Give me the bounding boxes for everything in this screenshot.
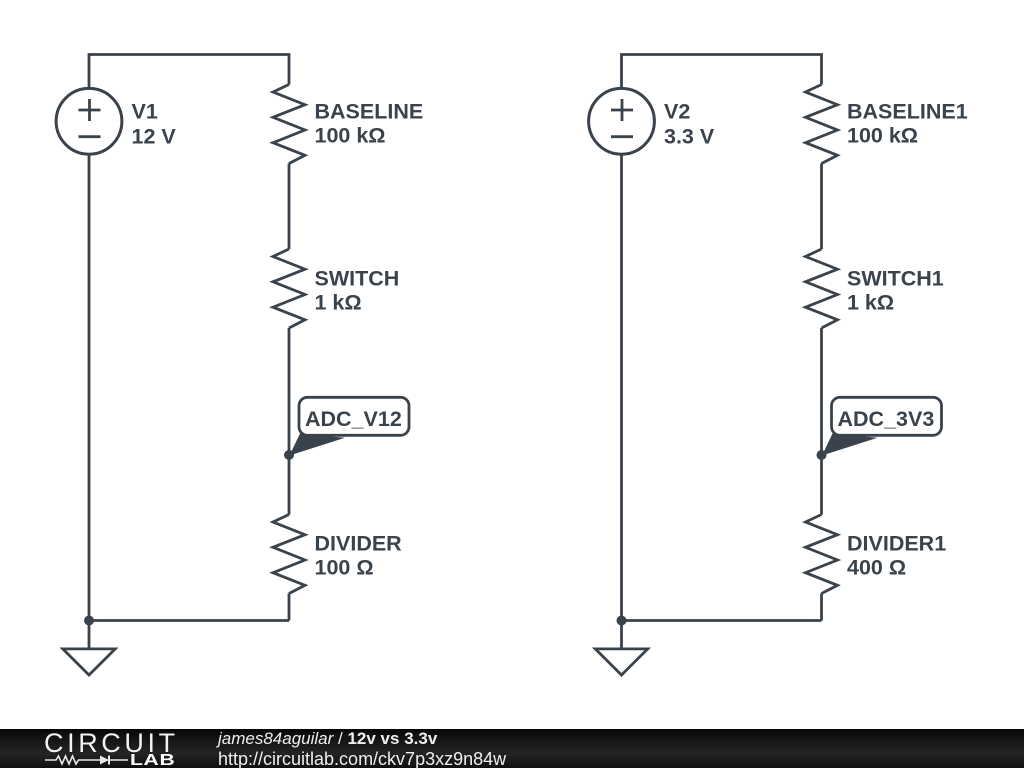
resistor DIVIDER <box>273 515 305 594</box>
wire top rail V2 to BASELINE1 <box>622 55 822 89</box>
node flag ADC_3V3 box <box>832 397 942 435</box>
svg-text:3.3 V: 3.3 V <box>664 125 715 149</box>
ground stub <box>88 621 91 648</box>
junction node dot ADC_V12 <box>284 450 294 460</box>
svg-text:BASELINE: BASELINE <box>315 99 424 123</box>
node flag ADC_V12 box <box>299 397 409 435</box>
ground stub right <box>620 621 623 648</box>
V2 minus sign <box>611 135 633 138</box>
wire left rail V2 to ground <box>620 155 623 621</box>
svg-text:DIVIDER: DIVIDER <box>315 532 403 556</box>
svg-text:SWITCH: SWITCH <box>315 267 400 291</box>
V2 plus sign <box>611 99 633 121</box>
wire bottom rail right <box>622 619 822 622</box>
ground triangle <box>63 649 115 675</box>
resistor SWITCH <box>273 249 305 328</box>
junction node dot ground <box>84 616 94 626</box>
wire DIVIDER to bottom rail <box>288 594 291 621</box>
resistor DIVIDER1 <box>806 515 838 594</box>
wire SWITCH to DIVIDER with node <box>288 328 291 515</box>
wire SWITCH1 to DIVIDER1 with node <box>820 328 823 515</box>
wire left rail V1 to ground <box>88 155 91 621</box>
resistor BASELINE <box>273 85 305 164</box>
svg-text:400 Ω: 400 Ω <box>847 556 906 580</box>
right circuit <box>589 55 942 676</box>
svg-text:V2: V2 <box>664 99 690 123</box>
wire BASELINE1 to SWITCH1 <box>820 164 823 250</box>
junction node dot ground right <box>617 616 627 626</box>
svg-text:DIVIDER1: DIVIDER1 <box>847 532 946 556</box>
svg-text:100 Ω: 100 Ω <box>315 556 374 580</box>
svg-text:100 kΩ: 100 kΩ <box>315 124 386 148</box>
voltage source V2 <box>589 88 655 154</box>
footer text line 2: url <box>218 750 506 768</box>
CircuitLab logo resistor-diode glyph <box>45 754 129 766</box>
CircuitLab logo wordmark CIRCUIT <box>44 730 179 757</box>
V1 minus sign <box>79 135 101 138</box>
resistor SWITCH1 <box>806 249 838 328</box>
voltage source V1 <box>56 88 122 154</box>
ground triangle right <box>595 649 647 675</box>
svg-text:SWITCH1: SWITCH1 <box>847 267 944 291</box>
footer bar <box>0 729 1024 768</box>
wire BASELINE to SWITCH <box>288 164 291 250</box>
svg-text:1 kΩ: 1 kΩ <box>847 291 894 315</box>
svg-text:V1: V1 <box>132 99 158 123</box>
junction node dot ADC_3V3 <box>817 450 827 460</box>
V1 plus sign <box>79 99 101 121</box>
svg-text:12 V: 12 V <box>132 125 177 149</box>
svg-text:ADC_V12: ADC_V12 <box>305 407 402 431</box>
CircuitLab logo LAB <box>130 753 175 769</box>
svg-text:ADC_3V3: ADC_3V3 <box>838 407 935 431</box>
left circuit <box>56 55 409 676</box>
wire bottom rail <box>89 619 289 622</box>
footer text line 1: user / title <box>218 730 437 747</box>
node flag ADC_3V3 tail <box>822 434 878 456</box>
svg-text:100 kΩ: 100 kΩ <box>847 124 918 148</box>
wire top rail V1 to BASELINE <box>89 55 289 89</box>
resistor BASELINE1 <box>806 85 838 164</box>
svg-text:1 kΩ: 1 kΩ <box>315 291 362 315</box>
node flag ADC_V12 tail <box>290 434 346 456</box>
wire DIVIDER1 to bottom rail <box>820 594 823 621</box>
svg-text:BASELINE1: BASELINE1 <box>847 99 968 123</box>
